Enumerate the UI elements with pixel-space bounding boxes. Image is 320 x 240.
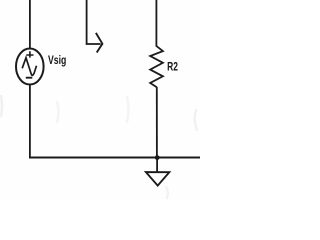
resistor R2 bbox=[150, 46, 163, 87]
wire bbox=[156, 87, 158, 158]
svg-text:R2: R2 bbox=[167, 60, 178, 74]
voltage source Vsig bbox=[16, 49, 44, 85]
wire bbox=[29, 157, 200, 159]
wire bbox=[155, 0, 157, 47]
ground bbox=[146, 172, 169, 186]
wire bbox=[29, 0, 31, 49]
wire bbox=[29, 84, 31, 157]
node junction bbox=[155, 155, 160, 160]
svg-text:Vsig: Vsig bbox=[48, 53, 66, 67]
current arrow bbox=[87, 0, 103, 53]
wire bbox=[156, 158, 158, 172]
